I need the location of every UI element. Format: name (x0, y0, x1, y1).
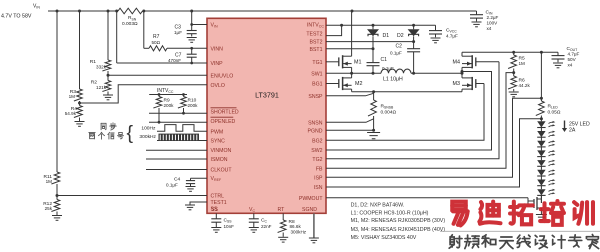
svg-text:M2: M2 (355, 81, 363, 87)
svg-text:470nF: 470nF (168, 58, 181, 63)
svg-text:M3, M4: RENESAS RJK0451DPB (40: M3, M4: RENESAS RJK0451DPB (40V) (351, 227, 446, 233)
svg-text:PWM: PWM (211, 129, 224, 135)
svg-text:VINMON: VINMON (211, 148, 232, 154)
svg-text:x4: x4 (568, 62, 573, 67)
svg-text:300kHz: 300kHz (139, 134, 156, 140)
svg-text:TEST1: TEST1 (211, 200, 227, 206)
svg-text:D1, D2: NXP BAT46W.: D1, D2: NXP BAT46W. (351, 203, 405, 209)
svg-text:VINN: VINN (211, 47, 224, 53)
svg-text:{: { (127, 122, 134, 144)
svg-text:OPENLED: OPENLED (211, 119, 236, 125)
svg-text:CLKOUT: CLKOUT (211, 168, 233, 174)
svg-text:PWMOUT: PWMOUT (299, 196, 323, 202)
svg-text:L1 10μH: L1 10μH (383, 76, 403, 82)
svg-text:1M: 1M (69, 94, 76, 99)
svg-text:LT3791: LT3791 (255, 91, 279, 100)
svg-text:D2: D2 (397, 33, 404, 39)
svg-text:0.1μF: 0.1μF (390, 51, 402, 56)
svg-text:44.2k: 44.2k (519, 83, 531, 88)
svg-text:BST2: BST2 (310, 40, 323, 46)
svg-text:1μF: 1μF (174, 30, 182, 35)
svg-text:C2: C2 (396, 44, 403, 50)
svg-text:332k: 332k (96, 64, 107, 69)
svg-text:ISMON: ISMON (211, 157, 228, 163)
svg-text:BG2: BG2 (312, 138, 322, 144)
svg-text:1M: 1M (519, 61, 526, 66)
svg-text:VINP: VINP (211, 61, 224, 67)
svg-text:300kHz: 300kHz (291, 229, 307, 234)
svg-text:SHORTLED: SHORTLED (211, 109, 239, 115)
svg-text:ISP: ISP (314, 175, 323, 181)
svg-text:100V: 100V (487, 20, 499, 25)
svg-text:121k: 121k (96, 85, 107, 90)
svg-text:SN: SN (132, 17, 137, 21)
svg-text:x4: x4 (487, 26, 492, 31)
svg-text:CTRL: CTRL (211, 194, 225, 200)
svg-text:22nF: 22nF (261, 224, 272, 229)
svg-text:TG1: TG1 (312, 60, 322, 66)
svg-text:SW2: SW2 (311, 148, 322, 154)
svg-text:TEST2: TEST2 (306, 32, 322, 38)
svg-text:1M: 1M (46, 179, 53, 184)
svg-text:SGND: SGND (302, 207, 317, 213)
svg-text:50V: 50V (568, 57, 577, 62)
svg-text:0.05Ω: 0.05Ω (548, 110, 561, 116)
svg-text:4.7μF: 4.7μF (446, 34, 458, 39)
svg-text:100Hz: 100Hz (141, 126, 156, 132)
svg-text:TG2: TG2 (312, 157, 322, 163)
svg-text:C1: C1 (381, 57, 388, 63)
svg-text:54.9k: 54.9k (65, 111, 77, 116)
svg-text:0.003Ω: 0.003Ω (122, 21, 138, 27)
svg-text:0.1μF: 0.1μF (166, 183, 178, 188)
svg-text:L1: COOPER HC9-100-R (10μH): L1: COOPER HC9-100-R (10μH) (351, 210, 429, 216)
svg-text:PGND: PGND (308, 128, 323, 134)
svg-text:M1, M2: RENESAS RJK0305DPB (30: M1, M2: RENESAS RJK0305DPB (30V) (351, 218, 446, 224)
svg-text:M5: VISHAY SiZ340DS 40V: M5: VISHAY SiZ340DS 40V (351, 235, 417, 241)
svg-text:25k: 25k (45, 206, 53, 211)
svg-text:EN/UVLO: EN/UVLO (211, 73, 234, 79)
svg-text:SNSN: SNSN (308, 120, 323, 126)
svg-text:4.7V TO 58V: 4.7V TO 58V (1, 13, 32, 19)
svg-text:SW1: SW1 (311, 71, 322, 77)
svg-text:2.2μF: 2.2μF (487, 15, 499, 20)
svg-text:M4: M4 (453, 60, 461, 66)
svg-text:BST1: BST1 (310, 47, 323, 53)
svg-text:2A: 2A (569, 128, 576, 134)
svg-text:ISN: ISN (314, 185, 323, 191)
svg-text:0.004Ω: 0.004Ω (381, 110, 397, 116)
svg-text:SYNC: SYNC (211, 139, 226, 145)
svg-text:50Ω: 50Ω (152, 40, 161, 45)
svg-text:M1: M1 (354, 60, 362, 66)
svg-text:BG1: BG1 (312, 82, 322, 88)
svg-text:SNSP: SNSP (308, 94, 323, 100)
svg-text:D1: D1 (383, 33, 390, 39)
svg-text:FB: FB (316, 166, 323, 172)
svg-text:SS: SS (211, 207, 218, 213)
svg-text:200k: 200k (164, 103, 175, 108)
svg-text:10nF: 10nF (224, 224, 235, 229)
svg-text:OVLO: OVLO (211, 83, 225, 89)
svg-text:M3: M3 (453, 81, 461, 87)
svg-text:RT: RT (278, 207, 286, 213)
svg-text:4.7μF: 4.7μF (568, 52, 580, 57)
svg-text:200k: 200k (188, 103, 199, 108)
